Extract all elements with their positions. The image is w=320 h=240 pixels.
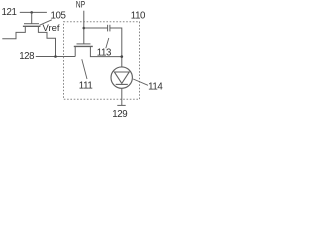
svg-text:113: 113 bbox=[97, 48, 111, 59]
svg-text:105: 105 bbox=[51, 11, 66, 22]
leader line for 113 bbox=[106, 38, 109, 48]
wire node NP vertical bbox=[83, 11, 85, 44]
terminal T-bar 129 bbox=[117, 104, 125, 106]
svg-text:128: 128 bbox=[19, 51, 34, 62]
wire transistor 111 left leg bbox=[74, 46, 76, 56]
leader line for 114 bbox=[133, 79, 148, 85]
photodiode 114 circle bbox=[111, 67, 132, 88]
wire transistor 105 left leg staircase bbox=[2, 26, 25, 39]
wire NP rail to capacitor bbox=[84, 27, 108, 29]
svg-text:129: 129 bbox=[112, 109, 127, 120]
svg-text:114: 114 bbox=[148, 82, 163, 93]
transistor 105 channel bar bbox=[23, 25, 41, 27]
wire capacitor to photodiode column bbox=[110, 28, 122, 67]
dashed box 110 bbox=[64, 22, 140, 100]
wire transistor 111 right leg bbox=[90, 46, 121, 56]
svg-text:NP: NP bbox=[76, 0, 85, 9]
svg-text:111: 111 bbox=[79, 80, 93, 91]
transistor 105 gate bar bbox=[24, 23, 39, 25]
svg-text:121: 121 bbox=[2, 7, 17, 18]
svg-text:110: 110 bbox=[131, 11, 146, 22]
leader line for 111 bbox=[82, 59, 87, 79]
wire transistor 105 right leg staircase to node bbox=[38, 26, 55, 56]
transistor 111 gate bar bbox=[77, 43, 91, 45]
photodiode 114 triangle bbox=[114, 72, 129, 83]
junction dot 128 rail bbox=[54, 55, 57, 58]
junction dot photodiode column bbox=[121, 55, 124, 58]
wire gate lead of transistor 105 bbox=[31, 12, 33, 23]
wire 128 rail bbox=[36, 56, 75, 58]
leader line for 105 bbox=[40, 20, 52, 25]
photodiode 114 cathode bar bbox=[116, 83, 128, 85]
capacitor 113 left plate bbox=[107, 25, 109, 32]
node dot on 121 wire bbox=[30, 11, 33, 14]
wire photodiode bottom lead bbox=[121, 88, 123, 105]
wire 121 horizontal bbox=[20, 11, 47, 13]
junction dot NP bbox=[83, 27, 86, 30]
svg-text:Vref: Vref bbox=[43, 23, 60, 34]
capacitor 113 right plate bbox=[109, 25, 111, 32]
transistor 111 channel bar bbox=[74, 45, 93, 47]
